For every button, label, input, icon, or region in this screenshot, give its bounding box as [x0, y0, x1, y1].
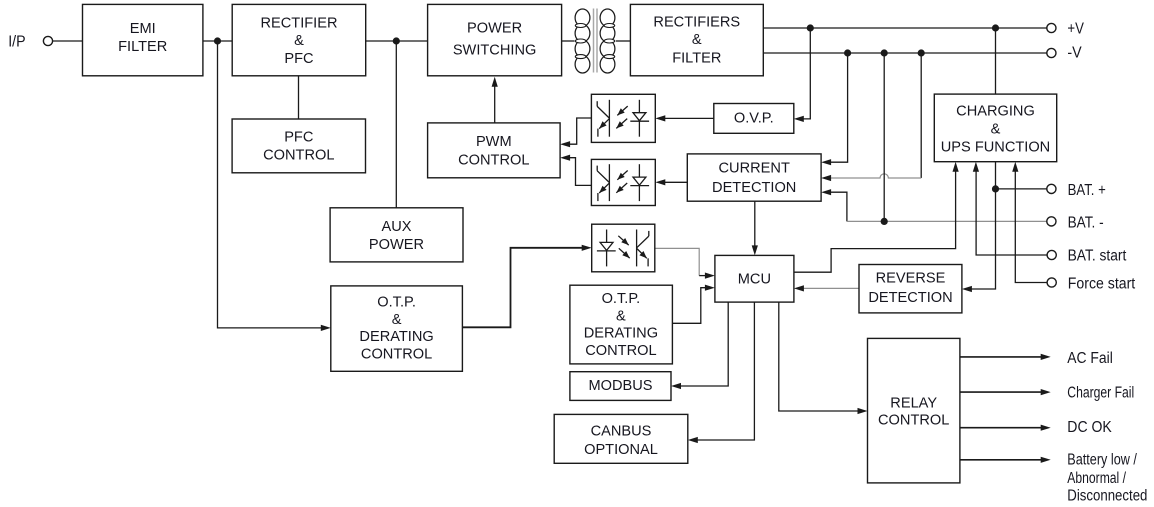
svg-text:FILTER: FILTER	[118, 39, 167, 55]
wire BAT minus rail	[847, 220, 1047, 222]
label DC OK	[1067, 419, 1112, 436]
block PFC CONTROL	[232, 119, 365, 173]
svg-text:-V: -V	[1067, 45, 1082, 62]
wire EMI FILTER to RECTIFIER-PFC	[203, 40, 232, 42]
wire optocoupler U3 to MCU	[655, 248, 715, 278]
svg-text:&: &	[392, 312, 402, 328]
svg-text:AC Fail: AC Fail	[1067, 350, 1113, 367]
wire CURRENT DETECTION to BAT minus sense	[821, 189, 847, 221]
block RECTIFIER & PFC	[232, 4, 366, 75]
svg-text:PFC: PFC	[284, 51, 313, 67]
svg-text:O.T.P.: O.T.P.	[377, 295, 416, 311]
wire RECTIFIER-PFC to PFC CONTROL	[298, 76, 300, 119]
wire CURRENT DETECTION to optocoupler U2	[655, 179, 687, 185]
svg-text:PFC: PFC	[284, 129, 313, 145]
wire -V rail	[763, 52, 1047, 54]
wire junction A down to O.T.P. DERATING CONTROL	[218, 41, 331, 331]
svg-text:FILTER: FILTER	[672, 50, 721, 66]
svg-text:CONTROL: CONTROL	[458, 152, 529, 168]
svg-text:Charger Fail: Charger Fail	[1067, 385, 1134, 402]
svg-text:RECTIFIERS: RECTIFIERS	[653, 15, 740, 31]
svg-text:CONTROL: CONTROL	[585, 343, 656, 359]
transformer T1 core	[594, 9, 598, 73]
svg-text:&: &	[616, 308, 626, 324]
optocoupler U3 internals	[597, 230, 649, 267]
label Battery low / Abnormal / Disconnected	[1067, 452, 1147, 505]
svg-text:DC OK: DC OK	[1067, 419, 1112, 436]
svg-text:Force start: Force start	[1068, 276, 1136, 293]
block CHARGING & UPS FUNCTION	[934, 94, 1056, 162]
wire hop to CURRENT DETECTION	[821, 174, 921, 181]
block O.T.P. & DERATING CONTROL left	[331, 286, 463, 371]
node +V junction 1	[807, 24, 814, 31]
svg-text:RELAY: RELAY	[890, 395, 937, 411]
svg-text:CONTROL: CONTROL	[361, 347, 432, 363]
wire Force start to CHARGING	[1012, 162, 1047, 283]
block O.V.P.	[714, 104, 794, 134]
wire O.V.P. to optocoupler U1	[655, 115, 714, 121]
svg-text:MCU: MCU	[738, 272, 771, 288]
svg-text:SWITCHING: SWITCHING	[453, 43, 537, 59]
wire CURRENT DETECTION to MCU	[752, 201, 758, 255]
svg-text:OPTIONAL: OPTIONAL	[584, 442, 658, 458]
block CURRENT DETECTION	[687, 154, 821, 201]
wire O.T.P. DERATING CONTROL 2 to MCU	[672, 285, 715, 324]
wire BAT start to CHARGING	[973, 162, 1048, 255]
svg-text:BAT. start: BAT. start	[1068, 248, 1127, 265]
wire transformer to RECTIFIERS-FILTER	[616, 40, 631, 42]
wire BAT plus rail	[996, 188, 1048, 190]
svg-text:PWM: PWM	[476, 134, 512, 150]
wire O.T.P. DERATING to optocoupler U3	[462, 245, 591, 328]
svg-text:CURRENT: CURRENT	[719, 161, 790, 177]
node BAT plus junction	[992, 185, 999, 192]
wire optocoupler U1 to PWM CONTROL	[560, 118, 591, 147]
block O.T.P. & DERATING CONTROL 2	[570, 285, 673, 364]
svg-text:UPS FUNCTION: UPS FUNCTION	[941, 139, 1050, 155]
wire MCU to RELAY CONTROL	[779, 302, 868, 414]
node BAT minus junction	[881, 218, 888, 225]
svg-text:POWER: POWER	[369, 237, 424, 253]
svg-text:MODBUS: MODBUS	[588, 378, 652, 394]
wire POWER SWITCHING to transformer	[562, 40, 575, 42]
optocoupler U2 box	[591, 159, 655, 205]
block RELAY CONTROL	[868, 338, 960, 483]
wire junction B down to AUX POWER	[395, 41, 397, 208]
node +V junction 2	[992, 24, 999, 31]
wire CHARGING to BAT plus	[995, 162, 997, 189]
svg-text:POWER: POWER	[467, 21, 522, 37]
block REVERSE DETECTION	[859, 265, 962, 313]
label Charger Fail	[1067, 385, 1134, 402]
terminal BAT. +	[1047, 182, 1106, 199]
wire REVERSE DETECTION to MCU	[794, 285, 859, 291]
wire RELAY to AC Fail	[960, 354, 1051, 360]
wire RELAY to DC OK	[960, 425, 1051, 431]
wire optocoupler U2 to PWM CONTROL	[560, 155, 591, 186]
wire RECTIFIER-PFC to POWER SWITCHING	[366, 40, 428, 42]
svg-text:O.V.P.: O.V.P.	[734, 110, 774, 126]
wire I/P to EMI FILTER	[52, 40, 82, 42]
block POWER SWITCHING	[428, 4, 562, 75]
svg-text:&: &	[692, 32, 702, 48]
svg-text:BAT. -: BAT. -	[1068, 214, 1104, 231]
wire RELAY to Battery low	[960, 457, 1051, 463]
terminal I/P	[8, 34, 52, 51]
svg-text:DETECTION: DETECTION	[712, 180, 796, 196]
block MODBUS	[570, 372, 671, 401]
svg-text:DERATING: DERATING	[584, 326, 658, 342]
svg-text:+V: +V	[1067, 21, 1084, 38]
svg-text:Battery low /: Battery low /	[1067, 452, 1137, 469]
optocoupler U3 box	[592, 224, 655, 272]
wire -V junction 3 down	[920, 53, 922, 178]
wire PWM CONTROL to POWER SWITCHING	[492, 77, 498, 123]
wire MCU to CHARGING UPS FUNCTION	[794, 162, 959, 273]
svg-text:CONTROL: CONTROL	[263, 147, 334, 163]
wire +V junction 2 to CHARGING	[995, 28, 997, 94]
block PWM CONTROL	[428, 123, 560, 178]
block AUX POWER	[330, 208, 463, 262]
svg-text:&: &	[294, 33, 304, 49]
svg-text:O.T.P.: O.T.P.	[602, 291, 641, 307]
block MCU	[715, 255, 794, 302]
svg-text:I/P: I/P	[8, 34, 25, 51]
svg-text:Abnormal /: Abnormal /	[1067, 470, 1126, 487]
wire RELAY to Charger Fail	[960, 389, 1051, 395]
node -V junction 3	[918, 49, 925, 56]
terminal -V	[1047, 45, 1083, 62]
wire MCU to CANBUS	[688, 302, 755, 443]
block EMI FILTER	[83, 4, 203, 75]
block CANBUS OPTIONAL	[554, 414, 688, 463]
optocoupler U2 internals	[597, 164, 649, 201]
wire -V junction 1 to CURRENT DETECTION	[821, 53, 848, 165]
wire -V junction 2 to BAT minus	[883, 53, 885, 221]
svg-text:REVERSE: REVERSE	[876, 270, 946, 286]
optocoupler U1 box	[591, 94, 655, 142]
svg-text:CANBUS: CANBUS	[591, 424, 652, 440]
svg-text:RECTIFIER: RECTIFIER	[260, 16, 337, 32]
wire +V rail	[763, 27, 1047, 29]
svg-text:EMI: EMI	[130, 21, 156, 37]
node -V junction 2	[881, 49, 888, 56]
svg-text:DERATING: DERATING	[359, 329, 433, 345]
svg-text:CHARGING: CHARGING	[956, 104, 1035, 120]
svg-text:Disconnected: Disconnected	[1067, 488, 1147, 505]
svg-text:AUX: AUX	[381, 219, 411, 235]
node junction A on input rail	[214, 37, 221, 44]
svg-text:BAT. +: BAT. +	[1068, 182, 1106, 199]
optocoupler U1 internals	[597, 100, 649, 137]
wire +V to O.V.P.	[794, 28, 811, 122]
terminal BAT. -	[1047, 214, 1104, 231]
block RECTIFIERS & FILTER	[630, 4, 763, 75]
terminal BAT. start	[1047, 248, 1127, 265]
label AC Fail	[1067, 350, 1113, 367]
transformer T1 primary winding	[575, 9, 590, 73]
terminal +V	[1047, 21, 1085, 38]
svg-text:&: &	[991, 121, 1001, 137]
terminal Force start	[1047, 276, 1136, 293]
node -V junction 1	[844, 49, 851, 56]
wire MCU to MODBUS	[671, 302, 728, 389]
transformer T1 secondary winding	[600, 9, 615, 73]
wire BAT plus to REVERSE DETECTION	[962, 189, 996, 292]
svg-text:CONTROL: CONTROL	[878, 413, 949, 429]
svg-text:DETECTION: DETECTION	[868, 290, 952, 306]
node junction B on input rail	[393, 37, 400, 44]
